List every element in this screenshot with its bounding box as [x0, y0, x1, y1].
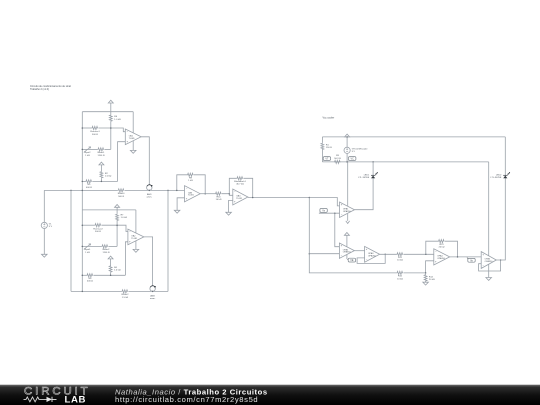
svg-text:1.0 kΩ: 1.0 kΩ: [121, 217, 128, 219]
svg-text:20 kΩ: 20 kΩ: [429, 279, 435, 281]
svg-text:TL081: TL081: [236, 198, 243, 200]
svg-text:1 kΩ: 1 kΩ: [188, 180, 193, 182]
svg-text:LTL-307EE: LTL-307EE: [358, 177, 369, 179]
svg-text:OPA350: OPA350: [437, 257, 446, 260]
svg-text:VC: VC: [351, 158, 355, 161]
svg-text:AM1: AM1: [147, 193, 152, 196]
svg-text:AM2: AM2: [150, 294, 155, 297]
svg-text:1150 Ω: 1150 Ω: [98, 155, 105, 157]
svg-text:1.0 kΩ: 1.0 kΩ: [114, 270, 121, 272]
svg-text:Rfilter2: Rfilter2: [122, 293, 130, 296]
svg-text:TL081: TL081: [188, 195, 195, 197]
svg-text:500 Ω: 500 Ω: [92, 134, 98, 136]
svg-text:Trabalho 2 (v1.0): Trabalho 2 (v1.0): [30, 88, 49, 91]
svg-text:TL081: TL081: [129, 138, 136, 140]
svg-text:Vcc cooler: Vcc cooler: [323, 116, 335, 119]
svg-text:OPA350: OPA350: [485, 260, 494, 263]
svg-text:1.5 kΩ: 1.5 kΩ: [122, 297, 129, 299]
svg-text:150 Ω: 150 Ω: [326, 147, 332, 149]
svg-text:Rsensor1: Rsensor1: [90, 130, 100, 133]
svg-text:10 kΩ: 10 kΩ: [216, 199, 222, 201]
svg-text:Rpot2: Rpot2: [85, 151, 92, 154]
svg-text:5 V: 5 V: [352, 151, 356, 153]
svg-text:10 kΩ: 10 kΩ: [397, 278, 403, 280]
svg-text:500 Ω: 500 Ω: [95, 231, 101, 233]
svg-text:1150 Ω: 1150 Ω: [103, 252, 110, 254]
svg-text:Rfilter1: Rfilter1: [118, 192, 126, 195]
svg-text:amm.: amm.: [147, 197, 153, 199]
svg-text:VT: VT: [325, 158, 329, 161]
svg-text:OPA350: OPA350: [343, 210, 352, 213]
svg-text:1.0 kΩ: 1.0 kΩ: [114, 119, 121, 121]
svg-text:Rpot1: Rpot1: [85, 248, 92, 251]
svg-text:LAB: LAB: [65, 394, 87, 405]
svg-text:Rsensor2: Rsensor2: [93, 227, 103, 230]
svg-text:20 kΩ: 20 kΩ: [439, 247, 445, 249]
svg-text:VThermRCooler: VThermRCooler: [352, 147, 368, 150]
svg-text:56.3 Ω: 56.3 Ω: [334, 158, 341, 160]
svg-text:1.0 kΩ: 1.0 kΩ: [105, 176, 112, 178]
svg-text:10 kΩ: 10 kΩ: [397, 260, 403, 262]
svg-text:5 V: 5 V: [49, 226, 53, 228]
svg-text:OPA350: OPA350: [343, 251, 352, 254]
svg-text:1 kΩ: 1 kΩ: [85, 252, 90, 254]
svg-text:500 Ω: 500 Ω: [118, 196, 124, 198]
svg-text:amm.: amm.: [150, 298, 156, 300]
svg-text:400 Ω: 400 Ω: [87, 281, 93, 283]
svg-text:OPA350: OPA350: [368, 254, 377, 257]
svg-text:TL081: TL081: [131, 238, 138, 240]
svg-text:VE: VE: [350, 259, 354, 262]
svg-text:46.7 kΩ: 46.7 kΩ: [236, 184, 244, 186]
svg-text:400 Ω: 400 Ω: [86, 187, 92, 189]
svg-text:http://circuitlab.com/cn77m2r2: http://circuitlab.com/cn77m2r2y8s5d: [115, 395, 258, 404]
svg-text:1 kΩ: 1 kΩ: [85, 155, 90, 157]
svg-text:LTL-307EE: LTL-307EE: [490, 177, 501, 179]
